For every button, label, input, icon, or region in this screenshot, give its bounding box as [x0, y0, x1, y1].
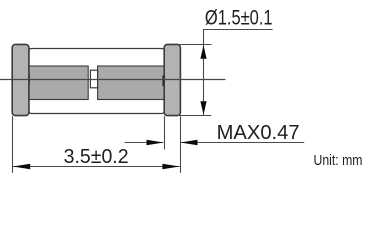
left slug	[29, 66, 88, 100]
right slug end mark	[163, 76, 165, 87]
unit note	[314, 153, 363, 169]
length left extension line	[12, 116, 14, 173]
length dimension line	[13, 166, 180, 168]
die at center	[90, 70, 97, 88]
MAX dimension right line with left-pointing arrow	[181, 142, 304, 144]
left end cap	[12, 44, 29, 115]
extension line cap top (for diameter dim)	[179, 44, 212, 46]
diameter dimension underline	[203, 29, 273, 31]
length label	[64, 146, 129, 168]
length right extension line (shared with MAX dim)	[180, 116, 182, 173]
glass body	[29, 49, 164, 114]
diameter label	[205, 7, 273, 30]
extension line cap bottom (for diameter dim)	[179, 115, 212, 117]
MAX cap-left extension line	[164, 116, 166, 149]
right slug	[98, 66, 165, 100]
svg-text:Ø1.5±0.1: Ø1.5±0.1	[205, 7, 273, 30]
length right arrow	[162, 164, 179, 170]
svg-text:3.5±0.2: 3.5±0.2	[64, 146, 129, 168]
svg-text:MAX0.47: MAX0.47	[217, 122, 300, 144]
diameter dimension vertical line	[203, 30, 205, 116]
MAX label	[217, 122, 300, 144]
right end cap	[164, 44, 180, 115]
MAX dimension left leader with right-pointing arrow	[125, 142, 164, 144]
svg-text:Unit: mm: Unit: mm	[314, 153, 363, 169]
left slug end mark	[28, 75, 30, 84]
diameter down arrow	[200, 101, 206, 115]
length left arrow	[13, 164, 30, 170]
centerline (horizontal axis)	[0, 79, 225, 81]
diameter up arrow	[200, 45, 206, 59]
